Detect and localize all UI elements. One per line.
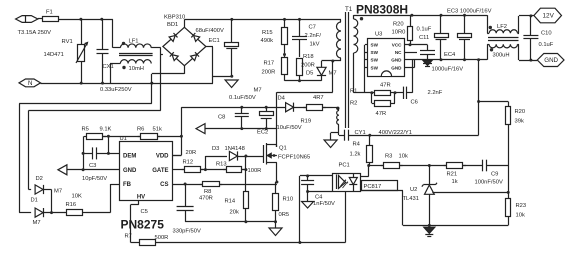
svg-text:R20: R20 <box>515 109 526 115</box>
svg-text:PC817: PC817 <box>364 184 382 190</box>
IC U3 box <box>368 39 405 77</box>
junction <box>298 18 301 21</box>
svg-text:R18: R18 <box>303 54 314 60</box>
wire B+ rail <box>184 19 341 21</box>
T1 aux winding <box>337 111 339 125</box>
svg-text:M7: M7 <box>254 88 262 94</box>
junction <box>244 155 247 158</box>
wire 12V rail <box>410 15 487 17</box>
junction <box>101 82 104 85</box>
junction <box>80 82 83 85</box>
ground C11 <box>423 61 432 66</box>
resistor R17 <box>282 58 288 75</box>
LF1 core <box>119 53 153 55</box>
junction <box>82 168 85 171</box>
wire C6 right <box>407 92 413 94</box>
junction <box>440 58 443 61</box>
resistor R10 <box>273 194 279 211</box>
wire DEM vertical <box>108 136 110 153</box>
wire opto collector <box>361 176 369 178</box>
svg-text:R23: R23 <box>516 203 527 209</box>
inductor LF2 bottom <box>489 44 517 48</box>
junction <box>306 174 309 177</box>
svg-text:CY1: CY1 <box>355 130 366 136</box>
wire GND pins <box>405 59 413 61</box>
junction <box>440 14 443 17</box>
svg-text:C5: C5 <box>141 209 148 215</box>
svg-text:1kV: 1kV <box>310 42 320 48</box>
svg-text:R19: R19 <box>301 119 312 125</box>
junction <box>410 14 413 17</box>
wire aux bottom <box>338 125 340 134</box>
capacitor C4 <box>301 181 314 185</box>
wire fb line <box>369 165 384 167</box>
resistor R7 <box>140 240 156 246</box>
wire GND line <box>67 169 120 171</box>
svg-text:EC1: EC1 <box>209 38 220 44</box>
svg-text:F1: F1 <box>46 10 53 16</box>
bridge diode bottom-right <box>191 52 199 60</box>
wire R20b top <box>508 102 510 108</box>
svg-text:1N4148: 1N4148 <box>225 146 245 152</box>
svg-text:C8: C8 <box>218 115 225 121</box>
wire bridge top to B+ rail <box>184 19 186 27</box>
junction <box>409 43 412 46</box>
svg-text:GATE: GATE <box>152 168 168 174</box>
shunt regulator U2 TL431 <box>425 185 435 194</box>
ground EC1 <box>225 80 238 88</box>
svg-text:R10: R10 <box>283 197 294 203</box>
wire VCC pin <box>405 44 428 46</box>
resistor R2 <box>375 101 391 107</box>
junction <box>463 58 466 61</box>
junction <box>529 59 532 62</box>
junction <box>529 14 532 17</box>
wire L rail <box>59 19 113 21</box>
wire NC stub <box>405 52 417 54</box>
svg-text:CS: CS <box>160 182 168 188</box>
svg-text:M7: M7 <box>33 220 41 226</box>
svg-text:100R: 100R <box>248 168 262 174</box>
svg-text:12V: 12V <box>543 13 555 20</box>
opto phototransistor <box>336 175 338 190</box>
wire R1R2 left <box>371 93 373 103</box>
svg-text:300uH: 300uH <box>493 53 510 59</box>
svg-text:R4: R4 <box>353 142 361 148</box>
capacitor C7 <box>292 37 307 40</box>
resistor R18 <box>297 59 303 76</box>
wire LF2 out bottom <box>518 44 520 46</box>
net arrow gnd <box>196 124 205 134</box>
junction <box>428 224 431 227</box>
inductor LF1 top winding <box>120 44 151 48</box>
junction <box>107 152 110 155</box>
svg-text:KBP310: KBP310 <box>164 15 185 21</box>
svg-text:200R: 200R <box>262 70 276 76</box>
wire opto return <box>300 242 346 244</box>
junction <box>298 241 301 244</box>
resistor R21 <box>444 163 466 169</box>
svg-text:R14: R14 <box>225 199 236 205</box>
LF1 phase dot <box>122 66 125 69</box>
svg-text:HV: HV <box>137 195 145 201</box>
wire opto cathode line <box>308 191 332 193</box>
svg-text:GND: GND <box>391 58 402 63</box>
ground TL431 <box>424 227 435 233</box>
junction <box>230 75 233 78</box>
junction <box>240 127 243 130</box>
svg-text:0.1uF: 0.1uF <box>539 42 554 48</box>
ground C4 <box>302 202 314 209</box>
wire HV stub <box>138 200 140 205</box>
junction <box>477 58 480 61</box>
capacitor C11 <box>420 51 435 55</box>
svg-text:M7: M7 <box>54 189 62 195</box>
junction <box>150 82 153 85</box>
wire aux supply rail <box>181 107 332 109</box>
capacitor EC4 <box>458 34 472 40</box>
terminal GND <box>537 54 564 67</box>
svg-text:1.2k: 1.2k <box>350 152 361 158</box>
svg-text:R3: R3 <box>385 154 392 160</box>
wire VDD supply elbow <box>181 107 183 155</box>
junction <box>244 220 247 223</box>
opto LED <box>349 178 357 185</box>
capacitor EC3 <box>435 34 449 40</box>
junction <box>370 91 373 94</box>
junction <box>50 211 53 214</box>
wire R16 to FB <box>86 212 111 214</box>
diode D3 <box>229 151 237 160</box>
svg-text:1k: 1k <box>452 179 458 185</box>
svg-text:EC4: EC4 <box>444 52 456 58</box>
wire SW to winding <box>353 53 355 93</box>
svg-text:D3: D3 <box>212 146 219 152</box>
wire N rail <box>41 83 152 85</box>
resistor R6 <box>138 134 160 140</box>
LF2 phase dot top <box>489 26 492 29</box>
resistor R3 <box>381 163 403 169</box>
svg-text:D2: D2 <box>36 176 43 182</box>
wire D1 D2 join <box>51 190 53 213</box>
IC U1 box <box>120 142 173 201</box>
svg-text:R7: R7 <box>125 234 132 240</box>
svg-text:SW: SW <box>371 58 379 63</box>
wire R13 right <box>242 169 246 171</box>
svg-text:SW: SW <box>371 65 379 70</box>
junction <box>79 18 82 21</box>
svg-text:C11: C11 <box>419 35 429 41</box>
svg-text:FCPF10N65: FCPF10N65 <box>278 155 310 161</box>
junction <box>394 91 397 94</box>
terminal L input <box>16 16 38 23</box>
wire sec gnd drop <box>478 60 480 136</box>
diode D1 <box>35 208 43 217</box>
wire bridge left vertex <box>160 48 162 111</box>
capacitor EC2 <box>260 112 274 119</box>
wire R1R2 right <box>391 92 404 94</box>
svg-text:T1: T1 <box>345 6 353 13</box>
junction <box>244 168 247 171</box>
svg-text:D5: D5 <box>306 71 313 77</box>
svg-text:TL431: TL431 <box>403 196 419 202</box>
capacitor C9 <box>483 160 487 172</box>
transistor Q1 body lead <box>267 155 277 157</box>
capacitor C5 <box>177 207 194 211</box>
junction <box>306 190 309 193</box>
svg-text:500R: 500R <box>155 235 169 241</box>
svg-text:400V/222/Y1: 400V/222/Y1 <box>379 130 413 136</box>
svg-text:490k: 490k <box>261 38 274 44</box>
svg-text:T3.15A 250V: T3.15A 250V <box>18 30 52 36</box>
resistor R15 <box>282 28 288 45</box>
varistor RV1 <box>78 45 85 62</box>
bridge diode top-left <box>169 33 177 41</box>
svg-text:C9: C9 <box>491 172 498 178</box>
svg-text:39k: 39k <box>515 119 524 125</box>
svg-text:NC: NC <box>395 50 402 55</box>
junction <box>283 18 286 21</box>
svg-text:C3: C3 <box>89 163 96 169</box>
T1 secondary winding <box>354 19 358 53</box>
svg-text:10R0: 10R0 <box>392 30 406 36</box>
junction <box>180 135 183 138</box>
label PC817 <box>362 181 398 191</box>
wire GATE line <box>172 169 184 171</box>
svg-text:51k: 51k <box>153 127 162 133</box>
svg-text:1000uF/16V: 1000uF/16V <box>432 67 464 73</box>
transistor Q1 channel <box>266 143 268 165</box>
svg-text:SW: SW <box>371 43 379 48</box>
capacitor CY1 <box>345 130 349 141</box>
svg-text:LF1: LF1 <box>129 39 139 45</box>
wire L to LF1 <box>112 19 114 48</box>
svg-text:R15: R15 <box>262 30 273 36</box>
wire aux top <box>338 107 340 110</box>
svg-text:U2: U2 <box>410 187 417 193</box>
wire R7 right <box>156 242 300 244</box>
svg-text:68uF/400V: 68uF/400V <box>196 28 224 34</box>
LF1 phase dot <box>122 42 125 45</box>
junction <box>240 106 243 109</box>
resistor R4 <box>367 146 373 163</box>
ground aux <box>324 140 337 148</box>
junction <box>184 183 187 186</box>
ground primary <box>269 228 282 236</box>
bridge rectifier BD1 diamond <box>163 27 206 65</box>
junction <box>100 18 103 21</box>
bridge diode top-right <box>191 33 199 41</box>
wire SW pins <box>365 44 367 46</box>
svg-text:SW: SW <box>371 50 379 55</box>
svg-text:R17: R17 <box>264 61 275 67</box>
svg-text:0.33uF250V: 0.33uF250V <box>100 87 132 93</box>
wire primary gnd line <box>205 128 277 130</box>
transistor Q1 source lead <box>267 162 277 164</box>
svg-text:R12: R12 <box>183 160 194 166</box>
svg-text:0.1uF: 0.1uF <box>417 27 432 33</box>
svg-text:VCC: VCC <box>392 43 402 48</box>
resistor R8 <box>200 182 222 187</box>
svg-text:C4: C4 <box>315 195 323 201</box>
svg-text:10mH: 10mH <box>129 66 144 72</box>
svg-text:C6: C6 <box>411 100 418 106</box>
junction <box>298 79 301 82</box>
junction <box>265 127 268 130</box>
svg-text:PN8275: PN8275 <box>121 218 165 232</box>
junction <box>368 134 371 137</box>
LF2 core <box>488 37 519 39</box>
svg-text:10K: 10K <box>72 194 82 200</box>
svg-text:RV1: RV1 <box>62 39 73 45</box>
resistor R23 <box>506 199 511 217</box>
svg-text:9.1K: 9.1K <box>100 127 112 133</box>
wire CS line <box>172 184 277 186</box>
svg-text:10k: 10k <box>516 213 525 219</box>
wire sense gnd rail <box>185 221 275 223</box>
wire D3 to gate <box>237 156 263 158</box>
svg-text:C10: C10 <box>541 31 552 37</box>
svg-text:EC3 1000uF/16V: EC3 1000uF/16V <box>447 9 492 15</box>
svg-text:2.2nF: 2.2nF <box>428 90 443 96</box>
svg-text:1nF/50V: 1nF/50V <box>313 201 335 207</box>
capacitor C8 <box>235 114 249 117</box>
wire fb line4 <box>487 165 509 167</box>
T1 secondary phase dot <box>360 17 363 20</box>
transistor Q1 gate bar <box>263 145 265 163</box>
svg-text:10uF/50V: 10uF/50V <box>277 125 302 131</box>
inductor LF2 top <box>489 30 517 34</box>
wire outer sense <box>19 103 152 105</box>
resistor R13 <box>223 167 245 173</box>
svg-text:0R5: 0R5 <box>279 212 290 218</box>
svg-text:47R: 47R <box>376 111 387 117</box>
capacitor C6 <box>404 87 407 99</box>
resistor R20b <box>506 107 511 125</box>
svg-text:100nF/50V: 100nF/50V <box>475 180 503 186</box>
fuse F1 <box>43 17 59 22</box>
wire opto anode line <box>300 175 332 177</box>
svg-text:R1: R1 <box>350 89 357 95</box>
junction <box>275 181 278 184</box>
inductor LF1 bottom winding <box>120 60 151 64</box>
svg-text:R21: R21 <box>447 172 458 178</box>
svg-text:DEM: DEM <box>123 154 136 160</box>
svg-text:GND: GND <box>391 65 402 70</box>
svg-text:10k: 10k <box>399 154 408 160</box>
svg-text:47R: 47R <box>380 83 391 89</box>
resistor R14v <box>244 192 249 209</box>
wire LF2 out top <box>518 33 520 35</box>
wire D3 branch <box>205 156 207 170</box>
resistor R20a <box>408 27 413 41</box>
wire divider <box>508 125 510 198</box>
wire bridge bottom to minus elbow <box>184 66 186 74</box>
wire R5 R6 line <box>103 136 141 138</box>
wire DEM line <box>108 153 119 155</box>
wire clamp bottom <box>285 80 322 82</box>
resistor R1 <box>375 91 391 96</box>
svg-text:BD1: BD1 <box>167 22 178 28</box>
capacitor CX1 <box>97 50 109 54</box>
svg-text:LF2: LF2 <box>497 24 507 30</box>
junction <box>477 100 480 103</box>
svg-text:R2: R2 <box>350 101 357 107</box>
wire fb line3 <box>463 165 483 167</box>
svg-text:R5: R5 <box>82 127 89 133</box>
svg-text:200R: 200R <box>301 63 315 69</box>
wire R23 bottom <box>508 216 510 225</box>
resistor R5 <box>84 134 106 140</box>
wire inner sense <box>29 110 161 112</box>
svg-text:470R: 470R <box>199 196 213 202</box>
svg-text:D4: D4 <box>278 96 286 102</box>
svg-text:D1: D1 <box>31 198 38 204</box>
T1 aux phase dot <box>336 107 339 110</box>
wire opto emitter <box>361 190 403 192</box>
optocoupler PC1 box <box>333 174 361 192</box>
junction <box>507 191 510 194</box>
LF2 phase dot bottom <box>490 48 493 51</box>
svg-text:R8: R8 <box>204 189 211 195</box>
svg-text:20k: 20k <box>230 210 239 216</box>
wire gate mid <box>201 169 226 171</box>
svg-text:Q1: Q1 <box>279 146 287 152</box>
capacitor EC1 <box>225 43 239 49</box>
svg-text:EC2: EC2 <box>257 130 268 136</box>
resistor R12 <box>182 167 204 173</box>
capacitor C3 <box>93 147 97 159</box>
diode D2 <box>35 185 43 194</box>
svg-text:N: N <box>28 80 32 87</box>
junction <box>367 164 370 167</box>
terminal N input <box>19 79 41 87</box>
junction <box>265 106 268 109</box>
svg-text:U3: U3 <box>375 32 382 38</box>
svg-text:CX1: CX1 <box>103 64 114 70</box>
svg-text:GND: GND <box>123 168 137 174</box>
svg-text:2.2nF/: 2.2nF/ <box>305 33 322 39</box>
svg-text:GND: GND <box>544 57 558 64</box>
junction <box>204 168 207 171</box>
svg-text:10pF/50V: 10pF/50V <box>82 176 107 182</box>
diode D5 <box>317 67 326 75</box>
wire bridge right vertex jog <box>206 46 213 48</box>
resistor R16 <box>64 210 86 216</box>
svg-text:VDD: VDD <box>156 154 169 160</box>
T1 primary winding <box>337 22 342 58</box>
svg-text:4R7: 4R7 <box>313 95 324 101</box>
wire LF1 top right to bridge <box>151 47 161 49</box>
svg-text:14D471: 14D471 <box>44 52 64 58</box>
svg-text:C7: C7 <box>309 25 316 31</box>
wire VDD pin <box>172 155 181 157</box>
svg-text:R6: R6 <box>137 127 144 133</box>
net arrow gnd <box>58 165 67 175</box>
junction <box>428 164 431 167</box>
junction <box>82 152 85 155</box>
junction <box>274 220 277 223</box>
svg-text:R16: R16 <box>66 202 77 208</box>
diode D4 <box>286 103 294 112</box>
svg-text:R20: R20 <box>393 22 404 28</box>
svg-text:330pF/50V: 330pF/50V <box>173 229 201 235</box>
capacitor C10 <box>523 36 538 39</box>
svg-text:PC1: PC1 <box>339 163 350 169</box>
svg-text:PN8308H: PN8308H <box>356 3 408 17</box>
junction <box>230 18 233 21</box>
bridge diode bottom-left <box>170 52 178 60</box>
